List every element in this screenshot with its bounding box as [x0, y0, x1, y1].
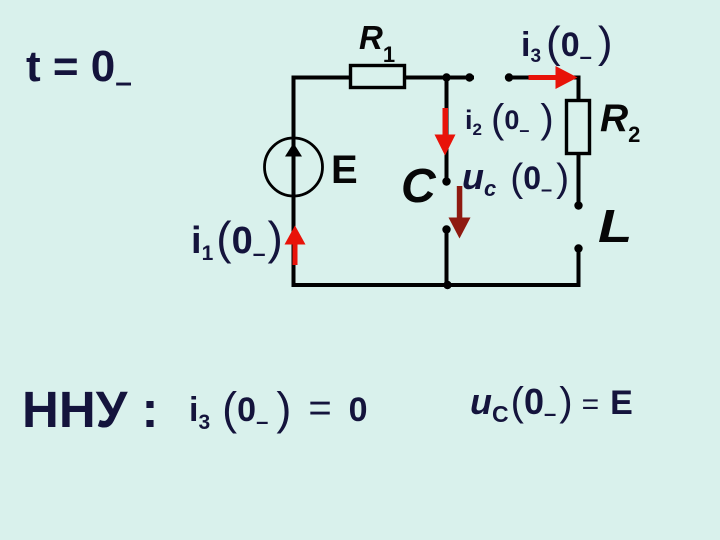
label i2(0-)	[465, 99, 554, 139]
current i3 arrow (red, right)	[529, 66, 578, 89]
label uc(0-)	[462, 159, 569, 200]
source E circle	[265, 138, 323, 196]
wire left vertical (source branch)	[292, 78, 296, 286]
label i3(0-)	[521, 21, 613, 68]
node terminal dot (capacitor C top)	[442, 177, 450, 185]
label C	[401, 163, 436, 211]
current i1 arrow (red, up)	[285, 226, 306, 266]
wire capacitor branch upper	[445, 78, 449, 183]
wire top middle (R1 to switch gap)	[404, 76, 474, 80]
label R1	[359, 21, 395, 66]
equation i3(0-)=0	[189, 386, 368, 433]
current i2 arrow (red, down)	[435, 108, 456, 156]
label i1(0-)	[191, 215, 283, 265]
wire bottom	[292, 283, 581, 287]
node junction dot (bottom wire junction)	[443, 281, 451, 289]
label t = 0-	[26, 45, 132, 98]
wire right vertical lower (L to bottom wire)	[577, 247, 581, 287]
node junction dot (top of C branch)	[442, 73, 450, 81]
source E internal arrow head	[285, 143, 302, 157]
node terminal dot (capacitor C bottom)	[442, 225, 450, 233]
equation uc(0-)=E	[470, 382, 633, 426]
label HHY heading	[22, 384, 159, 435]
wire right vertical upper (into R2)	[577, 76, 581, 102]
wire right vertical middle (R2 to L)	[577, 153, 581, 207]
node terminal dot (inductor L bottom)	[574, 244, 582, 252]
label E	[331, 150, 358, 190]
resistor R1	[351, 66, 405, 88]
label L	[598, 203, 632, 249]
node terminal dot (switch right)	[505, 73, 513, 81]
label R2	[600, 99, 640, 146]
node terminal dot (switch left)	[465, 73, 473, 81]
wire top right (to R2 branch)	[509, 76, 579, 80]
voltage uc arrow (dark red, down)	[449, 186, 471, 239]
resistor R2	[567, 101, 590, 154]
wire top left (to R1)	[292, 76, 351, 80]
node terminal dot (inductor L top)	[574, 201, 582, 209]
wire capacitor branch lower	[445, 229, 449, 285]
